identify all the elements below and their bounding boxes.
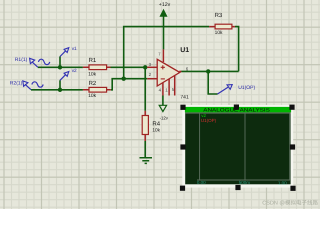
svg-text:U1(OP): U1(OP) xyxy=(238,85,255,91)
op-amp U1 pin1 lead xyxy=(168,79,170,96)
generator 2 arrow xyxy=(25,84,31,89)
svg-text:R1(1): R1(1) xyxy=(15,57,28,63)
svg-text:R2: R2 xyxy=(89,80,97,87)
wire R4 bottom to ground xyxy=(144,141,146,158)
selection handle mid-left xyxy=(180,144,185,149)
wire R2 to op-amp pin2 xyxy=(111,79,147,90)
resistor R4 leads xyxy=(144,111,146,141)
selection handle bottom-center xyxy=(235,185,240,190)
svg-text:R1: R1 xyxy=(89,57,97,64)
op-amp U1 pin6 lead xyxy=(179,70,181,72)
svg-text:741: 741 xyxy=(180,94,189,100)
selection handle bottom-right xyxy=(290,186,295,191)
wire output pin6 xyxy=(181,70,238,72)
wire feedback left vertical and top run to R3 xyxy=(124,27,210,79)
svg-text:R4: R4 xyxy=(152,121,160,128)
svg-text:R2(1): R2(1) xyxy=(10,80,23,86)
resistor R1 xyxy=(89,65,107,70)
svg-text:-12v: -12v xyxy=(160,115,169,120)
op-amp minus sign xyxy=(161,78,165,80)
op-amp plus sign xyxy=(161,65,165,69)
probe U1(OP) arrow xyxy=(218,87,229,94)
probe v1 arrow xyxy=(60,51,66,57)
selection handle bottom-left xyxy=(180,186,185,191)
wire probe v2 stub xyxy=(59,80,61,90)
generator 1 sine xyxy=(38,59,49,64)
svg-text:10k: 10k xyxy=(215,30,223,36)
generator 1 arrow xyxy=(32,62,38,67)
selection handle top-right xyxy=(289,105,294,110)
op-amp U1 pin7 lead xyxy=(162,49,164,62)
power -12v arrow xyxy=(159,105,166,111)
wire pin4 to -12v arrow xyxy=(162,96,164,106)
op-amp U1 pin3 lead xyxy=(147,66,157,68)
graph axis left xyxy=(199,113,201,180)
selection handle top-left xyxy=(180,105,185,110)
wire R3 right to output xyxy=(235,27,239,72)
svg-text:R3: R3 xyxy=(215,12,223,19)
node dot v2 junction xyxy=(58,88,62,92)
resistor R2 leads xyxy=(83,89,111,91)
wire +12v stem xyxy=(163,17,165,50)
op-amp U1 body xyxy=(157,59,180,86)
svg-text:U1(OP): U1(OP) xyxy=(201,118,217,123)
ground xyxy=(140,158,153,164)
node dot feedback junction xyxy=(122,77,126,81)
generator 2 sine xyxy=(32,82,43,87)
svg-text:v1: v1 xyxy=(72,46,77,51)
svg-text:10k: 10k xyxy=(88,93,96,99)
wire R1 to op-amp pin3 xyxy=(111,66,148,68)
wire pin3 node down to R4 xyxy=(144,67,146,111)
resistor R3 xyxy=(215,24,232,29)
op-amp U1 pin2 lead xyxy=(147,78,157,80)
graph window background xyxy=(182,105,293,188)
resistor R4 xyxy=(142,116,148,135)
power +12v arrow xyxy=(160,10,167,17)
svg-text:1.00: 1.00 xyxy=(278,181,287,186)
wire v2 input (gen2 to R2) xyxy=(31,89,83,91)
graph plot area xyxy=(185,112,290,184)
svg-text:U1: U1 xyxy=(180,47,189,54)
svg-text:CSDN @模拟电子线路: CSDN @模拟电子线路 xyxy=(262,199,318,206)
svg-text:500m: 500m xyxy=(239,180,251,185)
graph inner top border xyxy=(185,112,290,114)
node dot pin3/R4 junction xyxy=(143,65,147,69)
op-amp U1 pin5 lead xyxy=(174,76,176,96)
wire probe v1 stub xyxy=(59,57,61,68)
resistor R1 leads xyxy=(83,66,111,68)
selection handle top-center xyxy=(234,105,239,110)
wire output probe drop xyxy=(208,71,217,94)
graph title bar xyxy=(185,107,291,113)
op-amp U1 pin4 lead xyxy=(162,83,164,96)
node dot v1 junction xyxy=(58,65,62,69)
node dot output junction xyxy=(206,69,210,73)
graph axis bottom xyxy=(197,179,290,181)
svg-text:+12v: +12v xyxy=(159,2,171,8)
svg-text:0.00: 0.00 xyxy=(197,180,206,185)
graph axis middle xyxy=(244,113,246,180)
svg-text:10k: 10k xyxy=(152,128,160,133)
resistor R2 xyxy=(89,87,107,92)
graph axis right xyxy=(289,113,291,180)
wire v1 input (gen1 to R1) xyxy=(38,66,83,68)
probe v2 arrow xyxy=(60,75,66,81)
resistor R3 leads xyxy=(209,26,235,28)
svg-text:v2: v2 xyxy=(72,68,77,73)
selection handle mid-right xyxy=(290,144,295,149)
svg-text:10k: 10k xyxy=(88,72,96,78)
